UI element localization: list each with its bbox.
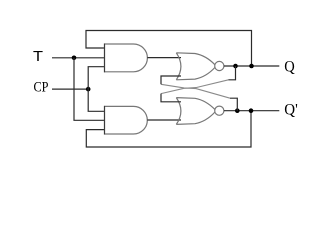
wire Q output <box>224 65 279 67</box>
wire Q feedback to AND1 (top rail) <box>86 31 252 67</box>
wire cross Q' to NOR1 input <box>230 98 237 111</box>
wire Q' output <box>224 110 279 112</box>
wire CP input <box>52 88 88 90</box>
wire T riser to AND2 <box>74 58 105 121</box>
node CP junction <box>86 87 91 92</box>
node T junction <box>72 56 77 61</box>
and-gate A2 <box>105 106 148 134</box>
svg-text:Q: Q <box>284 58 295 75</box>
wire A1 output to NOR1 <box>147 57 181 59</box>
svg-text:CP: CP <box>34 79 49 95</box>
node Q' cross junction <box>235 108 240 113</box>
nor-gate N1 <box>176 53 215 80</box>
wire CP riser to AND1 <box>88 67 104 89</box>
node Q feedback junction <box>249 64 254 69</box>
wire A2 output to NOR2 <box>147 119 181 121</box>
wire CP dropper to AND2 <box>88 89 104 111</box>
nor-gate N2 <box>176 98 215 125</box>
node Q cross junction <box>233 64 238 69</box>
nor-gate N2 bubble <box>215 106 224 115</box>
nor-gate N1 bubble <box>215 61 224 70</box>
and-gate A1 <box>105 44 148 72</box>
svg-text:Q': Q' <box>284 102 298 119</box>
wire T input <box>52 57 105 59</box>
wire cross Q to NOR2 input <box>229 66 236 80</box>
node Q' feedback junction <box>249 108 254 113</box>
svg-text:T: T <box>33 48 43 65</box>
wire Q' feedback to AND2 (bottom rail) <box>86 111 251 147</box>
